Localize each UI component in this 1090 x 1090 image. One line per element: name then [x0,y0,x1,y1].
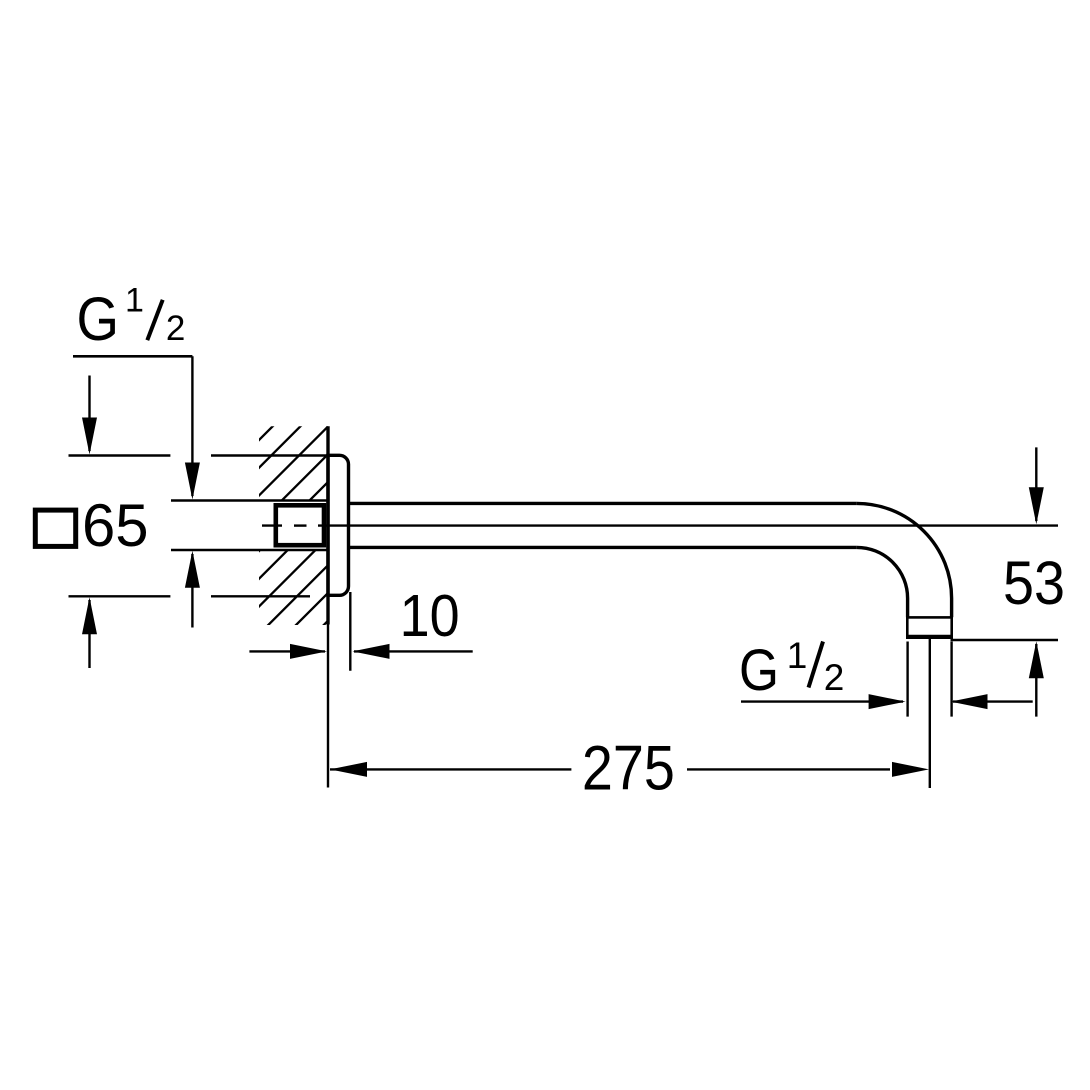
flange (wall rose) [328,455,349,595]
svg-text:275: 275 [582,733,675,803]
label G 1/2 (bottom) [739,635,844,703]
label G 1/2 (top) [76,282,185,354]
extension line flange bottom (y=596.3) [69,595,171,597]
dimension arrow 53 bottom (up) [1029,641,1044,716]
pipe outer bend [857,503,952,617]
extension lines below pipe end [906,642,908,717]
svg-text:2: 2 [166,309,185,348]
dimension arrow 65 top (down) [82,376,97,455]
dimension 10 right arrow [353,644,473,659]
svg-text:53: 53 [1003,549,1065,617]
square union block behind wall [276,505,324,545]
svg-text:2: 2 [824,657,845,698]
wall hatching lower [160,400,549,650]
wall hole bottom line [171,549,328,551]
leader line from G 1/2 label [73,355,192,358]
dimension G1/2 outlet left arrow [741,694,906,709]
extension line 53 bottom [951,639,1059,641]
svg-text:65: 65 [82,492,149,559]
dimension 275 left arrow [330,762,571,777]
pipe bottom line [349,546,857,549]
extension line flange face [349,592,351,671]
dimension arrow G1/2 top (down) [185,356,200,499]
wall hole top line [171,499,328,501]
pipe top line [349,502,857,505]
svg-text:G: G [739,638,779,703]
svg-text:1: 1 [125,282,144,320]
dimension G1/2 outlet right arrow [951,694,1033,709]
collar at pipe end [907,617,951,636]
horizontal centerline [262,524,1058,526]
dimension 10 left arrow [249,644,327,659]
wall face line [326,426,329,624]
dimension 275 right arrow [687,762,929,777]
dimension arrow 53 top (down) [1029,447,1044,524]
svg-text:G: G [76,285,119,353]
wall hatching upper [49,400,438,650]
square symbol of label 65 [35,510,75,546]
dimension arrow G1/2 bottom (up) [185,551,200,628]
extension line flange top (y=455.5) [69,454,171,456]
svg-text:10: 10 [400,583,460,649]
dimension arrow 65 bottom (up) [82,597,97,668]
collar bottom thick edge [906,635,953,639]
wall face extension line [327,625,329,788]
vertical centerline of outlet [929,637,931,789]
svg-text:1: 1 [787,635,808,676]
pipe inner bend [857,547,908,617]
